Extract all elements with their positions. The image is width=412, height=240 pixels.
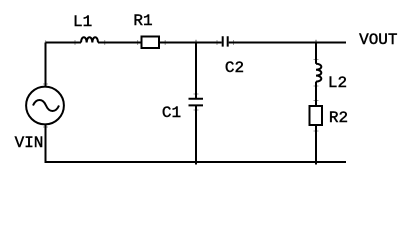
wire top horizontal left segment (46, 42, 82, 44)
junction stub above node C1 (195, 40, 197, 43)
label VOUT (359, 32, 397, 48)
junction stub above node L2 (315, 40, 317, 43)
pin tick R1 right (164, 40, 166, 45)
label C1 (162, 105, 181, 121)
wire left vertical below source (45, 125, 47, 163)
wire between L1 and R1 (98, 42, 141, 44)
label L1 (73, 14, 92, 30)
resistor R1 (142, 37, 160, 49)
resistor R2 (310, 106, 323, 125)
pin tick C2 left (216, 40, 218, 45)
pin tick R2 top (314, 100, 319, 102)
inductor L2 (316, 64, 321, 82)
source sine wave (33, 100, 59, 111)
pin tick C1 top (194, 93, 199, 95)
pin tick L2 top (314, 59, 319, 61)
wire L2 branch upper (315, 43, 317, 64)
wire C1 branch upper (195, 43, 197, 99)
pin tick C1 bottom (194, 109, 199, 111)
label C2 (225, 60, 244, 76)
label R2 (329, 110, 348, 126)
wire left vertical above source (45, 43, 47, 87)
capacitor C1 (189, 99, 204, 106)
label VIN (15, 135, 44, 151)
wire L2 to R2 (315, 82, 317, 106)
pin tick L1 right (104, 40, 106, 45)
label L2 (328, 75, 347, 91)
inductor L1 (81, 37, 98, 42)
pin tick L2 bottom (314, 85, 319, 87)
capacitor C2 (223, 36, 228, 46)
pin tick C2 right (233, 40, 235, 45)
pin tick R2 bottom (314, 130, 319, 132)
wire bottom horizontal (46, 161, 347, 163)
label R1 (133, 13, 152, 29)
wire C1 branch lower (195, 105, 197, 164)
wire R2 to bottom (315, 125, 317, 165)
source VIN circle (26, 87, 64, 125)
faint stub above top-left corner (45, 40, 47, 42)
pin tick source top (43, 83, 48, 85)
wire C2 to VOUT end (229, 42, 346, 44)
pin tick R1 left (137, 40, 139, 45)
wire between R1 and C2 (160, 42, 222, 44)
pin tick L1 left (74, 40, 76, 45)
pin tick source bottom (43, 126, 48, 128)
